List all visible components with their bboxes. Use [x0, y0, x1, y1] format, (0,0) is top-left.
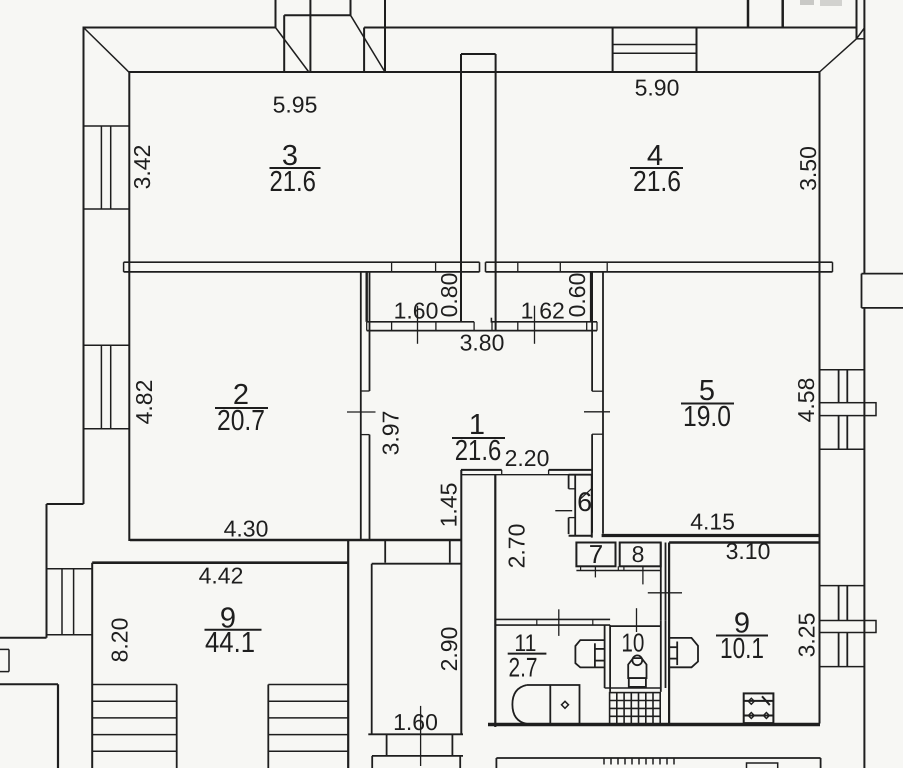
- faint cut-off text artifact top right: [800, 0, 814, 5]
- svg-text:21.6: 21.6: [455, 435, 502, 467]
- wall rooms3,4 / middle: horizontal band y262-272: [124, 261, 480, 263]
- room8 box: [620, 543, 661, 567]
- svg-text:4.30: 4.30: [224, 515, 269, 541]
- wire inner left wall segments: [128, 71, 130, 541]
- svg-text:4.58: 4.58: [793, 378, 819, 423]
- svg-text:3.25: 3.25: [794, 613, 820, 658]
- room5 bottom wall 4.15: [602, 534, 820, 537]
- svg-text:3.80: 3.80: [460, 329, 505, 355]
- room9(10.1) left wall: [668, 543, 670, 724]
- wall lobby | room9 x660-665: [660, 543, 662, 621]
- washbasin room11: [575, 640, 604, 667]
- svg-text:20.7: 20.7: [217, 405, 265, 437]
- window W4 room5 right: [820, 369, 865, 371]
- svg-text:44.1: 44.1: [205, 627, 255, 659]
- svg-text:5.95: 5.95: [273, 91, 318, 117]
- svg-text:3.42: 3.42: [129, 145, 155, 190]
- stairs flight A: [92, 684, 177, 686]
- dim tick room2 door: [347, 411, 376, 413]
- svg-text:3.50: 3.50: [795, 146, 821, 191]
- thick wall between rooms 3 and 4: [461, 53, 496, 55]
- door jambs room2: [361, 390, 370, 392]
- svg-text:0.80: 0.80: [436, 273, 462, 318]
- toilet fixture: [628, 655, 646, 687]
- svg-text:4.15: 4.15: [690, 508, 735, 534]
- bottom wall of flat y724: [488, 723, 820, 726]
- window W6 room9 left: [47, 568, 93, 570]
- svg-text:2.70: 2.70: [504, 524, 530, 569]
- svg-text:8: 8: [632, 541, 645, 567]
- room6 box: [591, 476, 593, 538]
- room9(10.1) top wall: [669, 541, 819, 543]
- wire inner top wall: [129, 71, 820, 73]
- svg-text:5.90: 5.90: [635, 75, 680, 101]
- room9 hall top wall: [92, 561, 348, 564]
- adjacent balcony right edge: [862, 273, 903, 275]
- bathtub: [512, 685, 579, 724]
- svg-text:21.6: 21.6: [633, 166, 681, 198]
- svg-text:3.97: 3.97: [378, 411, 404, 456]
- wall shaft right x461: [460, 470, 462, 734]
- wire inner right wall segments: [819, 71, 821, 724]
- dim line 1.60 shaft: [420, 706, 422, 766]
- svg-text:2.20: 2.20: [505, 445, 550, 471]
- electric panel room9: [744, 693, 774, 723]
- svg-text:8.20: 8.20: [107, 618, 133, 663]
- next floor fragment bottom right: [496, 757, 820, 759]
- chimney shaft top: [747, 0, 750, 28]
- elevator shaft: [384, 541, 386, 563]
- dim tick crossing x660 wall: [648, 592, 682, 594]
- band below rooms 7-8: [576, 570, 660, 572]
- dim 3.80 extension stub: [490, 318, 492, 323]
- stairwell landing bottom-left: [0, 683, 58, 685]
- top-right shaft column: [856, 0, 858, 39]
- left outer wall lower step: [47, 503, 84, 505]
- svg-text:0.60: 0.60: [564, 273, 590, 318]
- vent grid under toilet: [610, 693, 661, 724]
- wall corridor1 bottom / hall lintel y470-475: [461, 469, 502, 471]
- svg-text:4.42: 4.42: [199, 562, 244, 588]
- wall room2 | corridor1: [360, 272, 362, 540]
- svg-text:2.90: 2.90: [436, 627, 462, 672]
- window W2 room2 left: [84, 344, 130, 346]
- svg-text:7: 7: [589, 539, 603, 569]
- svg-text:4.82: 4.82: [131, 380, 157, 425]
- svg-text:10.1: 10.1: [720, 633, 764, 665]
- wire top outer wall right part: [364, 27, 856, 29]
- dim tick room6: [555, 510, 572, 512]
- dim ticks below rooms 7,8: [594, 566, 596, 577]
- window W3 room4 top: [612, 28, 614, 73]
- step wall x348: [347, 540, 349, 768]
- room6 door swing diagonal: [579, 489, 591, 500]
- NICHE TICKS: [417, 306, 419, 344]
- room7 box: [576, 543, 615, 567]
- niche bottom band y322-330: [367, 321, 474, 323]
- svg-text:62: 62: [539, 298, 565, 324]
- band dividers: [391, 262, 393, 272]
- window W1 room3 left: [84, 125, 130, 127]
- svg-text:10: 10: [621, 628, 644, 658]
- tiny niche on image left edge: [0, 648, 9, 650]
- toilet room 10 walls: [604, 625, 606, 688]
- dim tick bathroom: [558, 609, 560, 636]
- room2 bottom wall: [130, 539, 461, 542]
- svg-text:19.0: 19.0: [683, 401, 731, 433]
- svg-text:1: 1: [521, 298, 534, 324]
- niche 1.60x0.80 walls: [366, 272, 368, 322]
- stairs flight B: [268, 684, 347, 686]
- svg-text:1.45: 1.45: [436, 483, 462, 528]
- dim tick above toilet: [636, 608, 638, 632]
- washbasin room9: [669, 638, 698, 667]
- room9 hall left wall: [91, 563, 93, 768]
- window W5 room9 right: [820, 585, 865, 587]
- svg-text:1.60: 1.60: [393, 709, 438, 735]
- wire top outer wall left: [84, 27, 276, 29]
- svg-text:3.10: 3.10: [726, 538, 771, 564]
- corner mitre top-right: [820, 39, 857, 72]
- dim tick room5 door: [584, 411, 610, 413]
- bathroom left wall x495: [494, 475, 496, 727]
- wire corner mitre top-left: [84, 28, 130, 73]
- svg-text:21.6: 21.6: [269, 166, 316, 198]
- niche 1.62x0.60 right wall: [590, 272, 592, 322]
- wall corridor1 | room5: [591, 272, 593, 391]
- svg-text:2.7: 2.7: [509, 652, 538, 682]
- wire left outer wall: [83, 27, 85, 505]
- balcony structure above room3: [275, 0, 277, 28]
- door jambs room5: [592, 390, 603, 392]
- svg-text:1.60: 1.60: [394, 298, 439, 324]
- bathroom top wall band y619-625: [495, 618, 610, 620]
- hall 2.70 right wall / room6: [568, 475, 570, 489]
- svg-text:6: 6: [577, 487, 592, 517]
